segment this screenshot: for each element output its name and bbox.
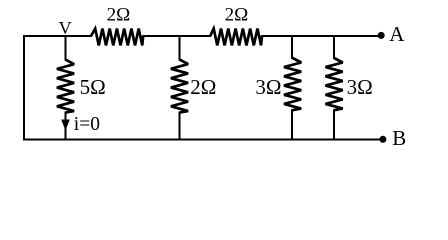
svg-text:i=0: i=0 bbox=[74, 114, 100, 135]
svg-text:A: A bbox=[389, 22, 405, 46]
svg-text:B: B bbox=[392, 126, 406, 150]
svg-text:3Ω: 3Ω bbox=[255, 75, 281, 99]
svg-text:2Ω: 2Ω bbox=[107, 4, 131, 25]
svg-text:3Ω: 3Ω bbox=[347, 75, 373, 99]
svg-text:2Ω: 2Ω bbox=[190, 75, 216, 99]
svg-text:2Ω: 2Ω bbox=[225, 4, 249, 25]
svg-text:V: V bbox=[59, 18, 72, 38]
svg-text:5Ω: 5Ω bbox=[80, 75, 106, 99]
